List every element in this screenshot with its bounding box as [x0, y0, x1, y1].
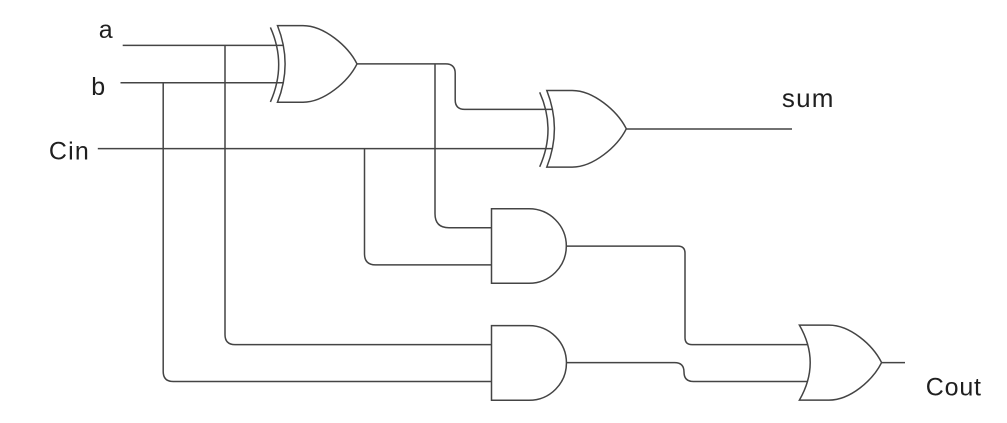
wire a branch to AND2 top input	[225, 45, 492, 344]
wire AND1 output to OR top input	[566, 246, 808, 345]
svg-text:b: b	[91, 73, 105, 101]
svg-text:a: a	[99, 16, 113, 44]
xor gate U2 input arc	[540, 92, 548, 167]
wire Cin input	[98, 148, 554, 150]
wire XOR1 output to XOR2 top input	[357, 64, 554, 110]
and gate U4 (lower)	[492, 326, 567, 401]
wire Cin branch to AND1 bottom input	[365, 149, 492, 265]
wire a input	[123, 44, 284, 46]
wire b branch to AND2 bottom input	[163, 83, 491, 382]
wire sum output	[626, 128, 792, 130]
and gate U3 (upper)	[492, 209, 567, 283]
wire XOR1 output branch to AND1 top input	[435, 64, 492, 228]
xor gate U1 input arc	[270, 27, 278, 102]
wire AND2 output to OR bottom input	[566, 363, 807, 382]
xor gate U2 (sum) body	[547, 91, 627, 168]
wire b input	[121, 82, 285, 84]
svg-text:Cin: Cin	[49, 138, 90, 166]
xor gate U1 (a XOR b) body	[278, 26, 358, 103]
svg-text:Cout: Cout	[926, 374, 982, 402]
wire Cout output	[882, 362, 905, 364]
or gate U5 (Cout)	[799, 325, 881, 400]
svg-text:sum: sum	[782, 83, 835, 113]
